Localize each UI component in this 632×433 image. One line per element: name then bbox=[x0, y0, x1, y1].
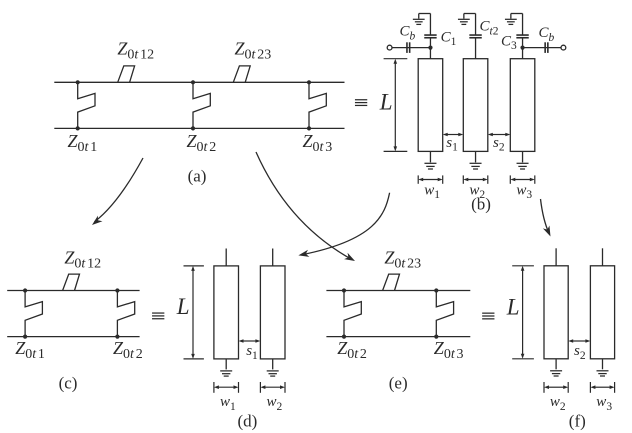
svg-text:L: L bbox=[176, 294, 190, 319]
svg-text:(a): (a) bbox=[188, 166, 207, 185]
svg-text:(e): (e) bbox=[389, 374, 408, 393]
svg-text:(c): (c) bbox=[59, 374, 78, 393]
svg-text:(f): (f) bbox=[569, 411, 586, 430]
svg-text:(b): (b) bbox=[471, 195, 491, 214]
svg-text:(d): (d) bbox=[237, 411, 257, 430]
svg-text:L: L bbox=[379, 89, 393, 114]
svg-text:L: L bbox=[506, 294, 520, 319]
